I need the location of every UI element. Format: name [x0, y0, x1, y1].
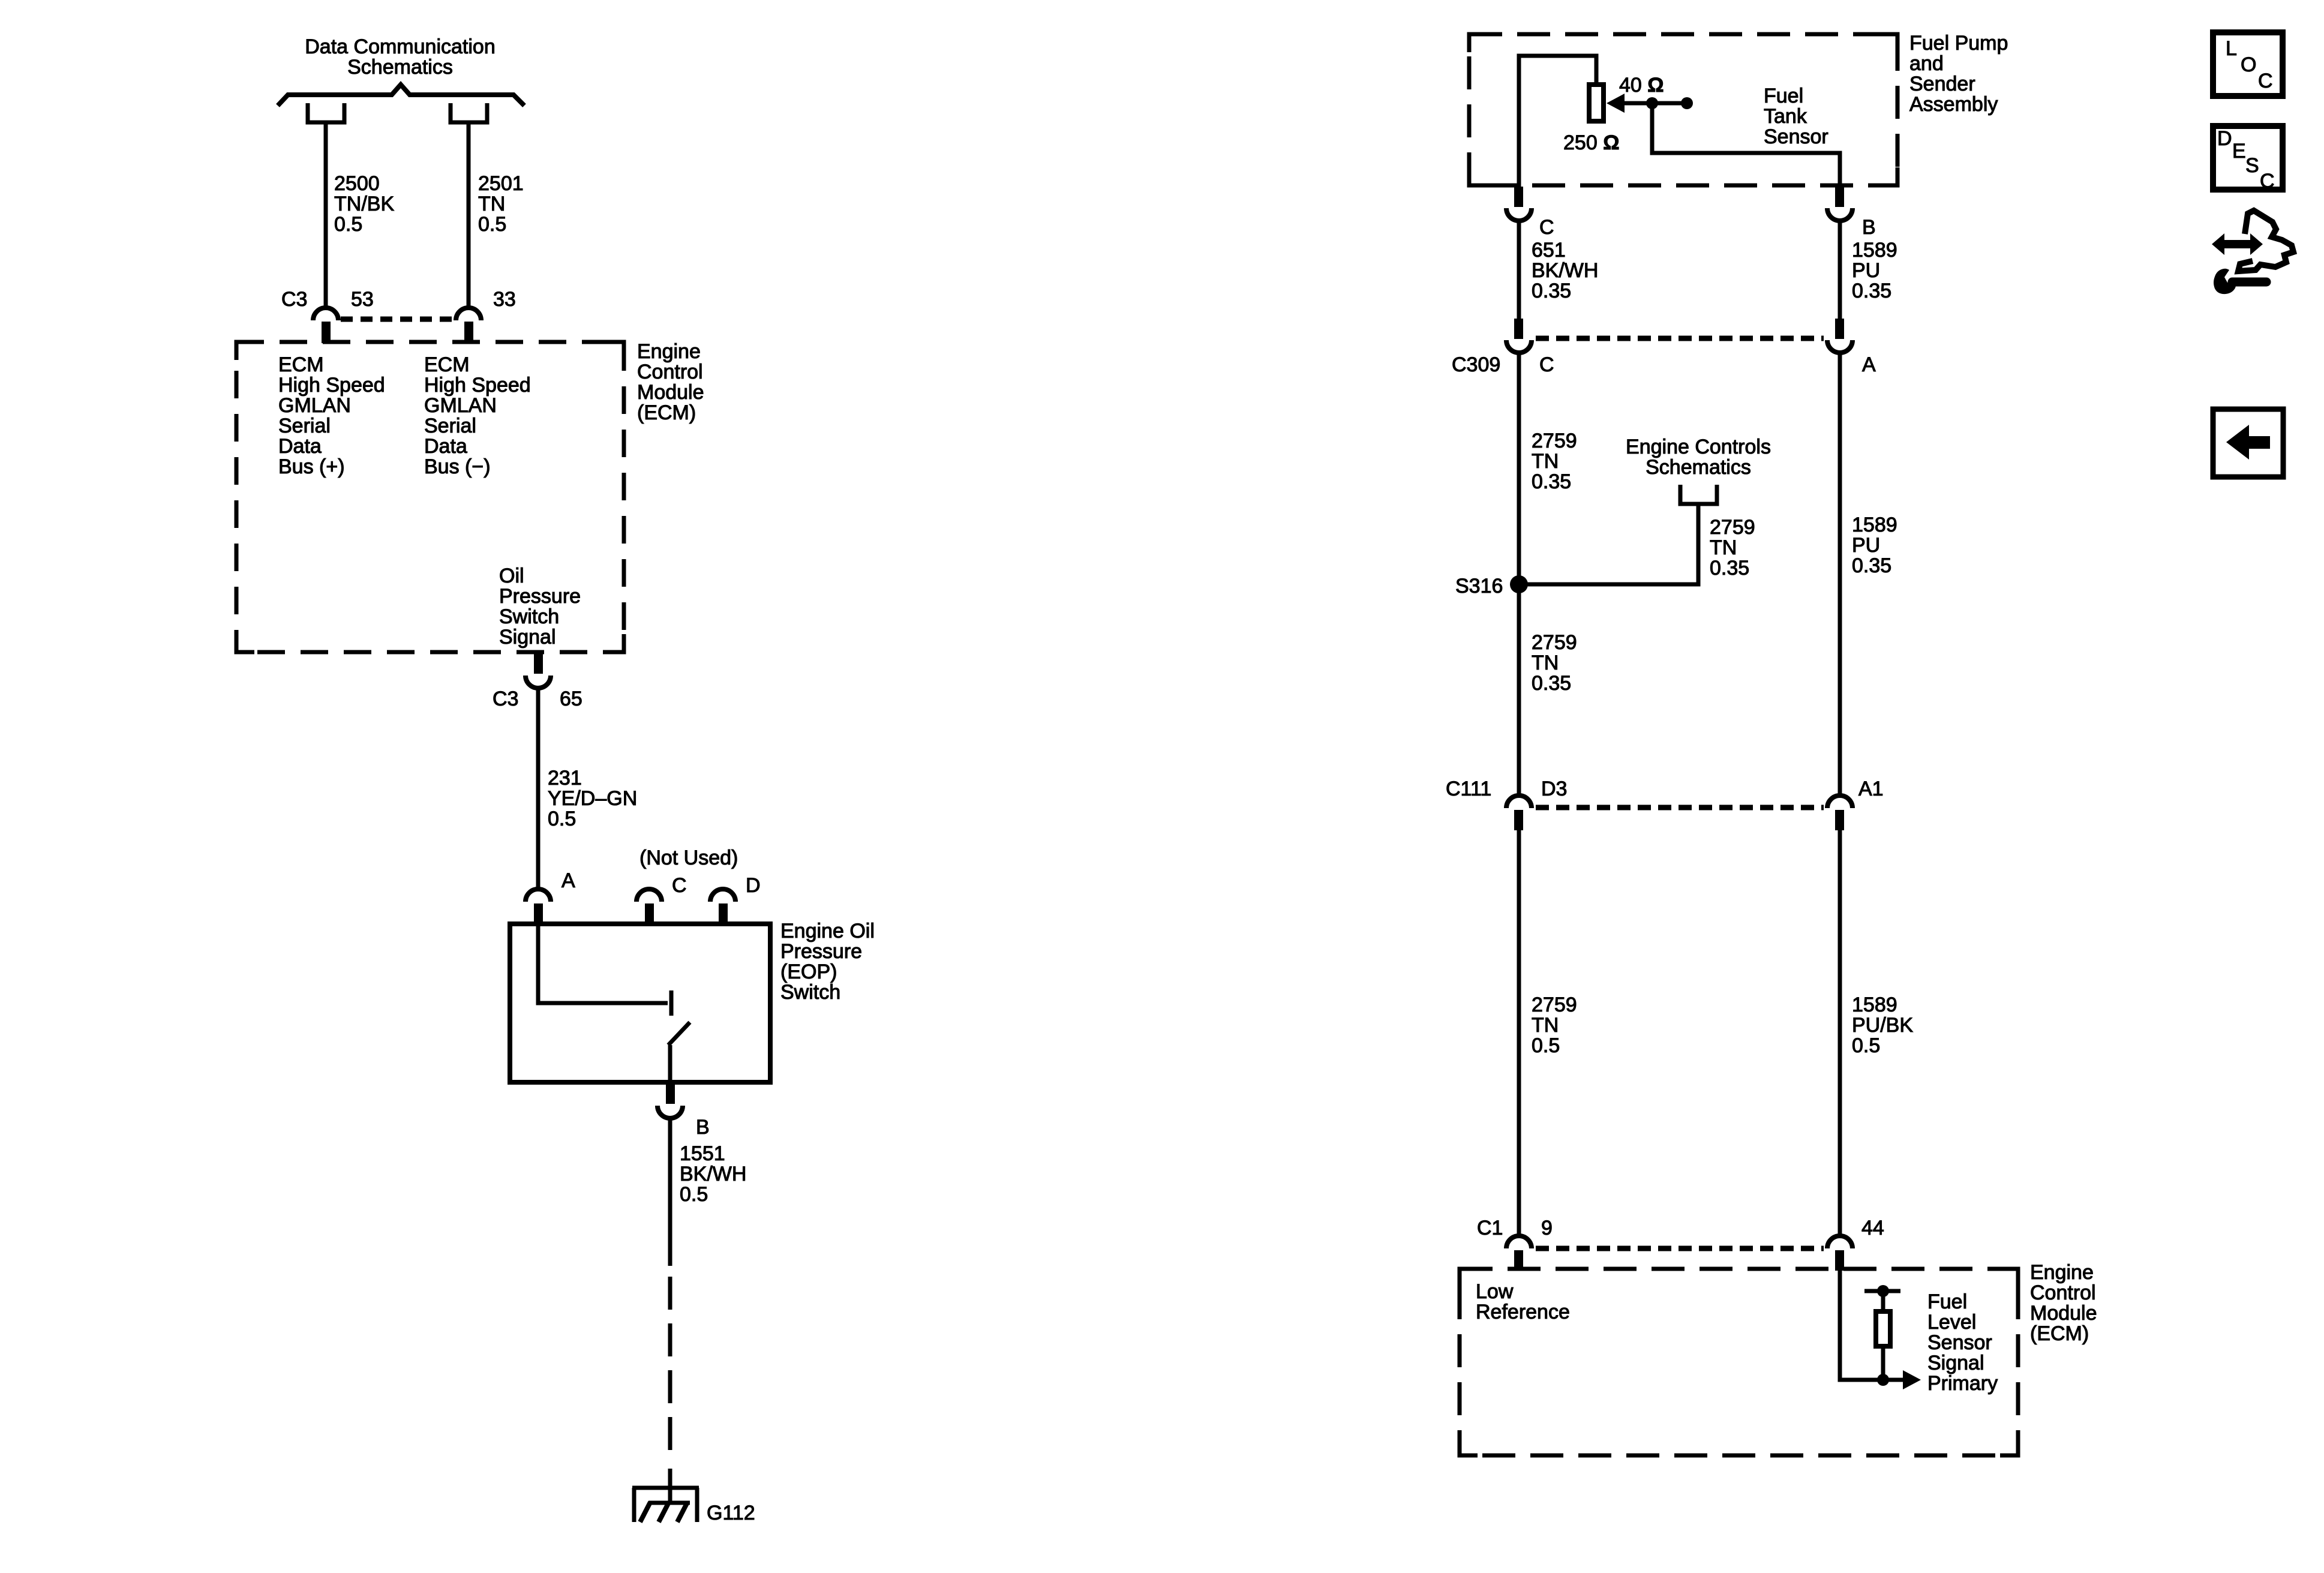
- value label: circuit 651 BK/WH 0.35: [1532, 239, 1598, 302]
- svg-text:Fuel Pump: Fuel Pump: [1909, 32, 2008, 55]
- Fuel Pump and Sender Assembly component box (dashed): [1469, 34, 1897, 185]
- connector pin D of EOP switch (arc + pin, not used): [710, 889, 735, 925]
- svg-text:Data: Data: [278, 435, 322, 458]
- svg-text:Assembly: Assembly: [1909, 93, 1998, 116]
- value label: circuit 1551 BK/WH 0.5: [680, 1142, 746, 1206]
- wire 1589 PU (upper): [1838, 221, 1842, 319]
- svg-text:Signal: Signal: [1927, 1352, 1984, 1374]
- svg-text:Fuel: Fuel: [1927, 1290, 1967, 1313]
- connector C3 pin 33 (arc + pin into ECM): [456, 308, 481, 343]
- wire 1551 BK/WH (dashed off-page run): [668, 1277, 672, 1455]
- svg-text:C3: C3: [493, 688, 518, 710]
- svg-text:651: 651: [1532, 239, 1566, 262]
- wire 2759 TN from S316 to C111: [1517, 584, 1521, 795]
- svg-text:TN/BK: TN/BK: [334, 193, 394, 215]
- svg-text:D: D: [746, 874, 761, 897]
- svg-text:Schematics: Schematics: [1646, 456, 1751, 479]
- svg-text:2759: 2759: [1710, 516, 1755, 539]
- wire inside EOP switch from pin A to fixed contact: [538, 925, 668, 1003]
- svg-text:YE/D–GN: YE/D–GN: [548, 787, 637, 810]
- svg-text:S316: S316: [1455, 575, 1503, 598]
- svg-text:0.5: 0.5: [334, 213, 362, 236]
- svg-text:0.5: 0.5: [1532, 1034, 1560, 1057]
- value label: circuit 2501 TN 0.5: [478, 172, 524, 236]
- svg-text:2759: 2759: [1532, 993, 1577, 1016]
- connector pin B of fuel pump assembly (pin + cup): [1827, 187, 1852, 221]
- wire 1551 BK/WH (solid upper part): [668, 1118, 672, 1266]
- svg-text:C111: C111: [1446, 778, 1491, 800]
- svg-text:Data: Data: [424, 435, 467, 458]
- fuel level sense resistor element: [1876, 1311, 1890, 1346]
- svg-text:C1: C1: [1477, 1217, 1503, 1239]
- svg-text:0.5: 0.5: [680, 1183, 708, 1206]
- Engine Control Module component box (dashed, bottom): [1460, 1269, 2018, 1455]
- svg-text:C3: C3: [281, 288, 307, 311]
- svg-text:9: 9: [1541, 1217, 1553, 1239]
- svg-text:0.35: 0.35: [1710, 557, 1749, 580]
- splice S316: [1510, 575, 1528, 593]
- wire 1589 PU/BK 0.5 (C111 to C1): [1838, 830, 1842, 1236]
- svg-text:Bus (−): Bus (−): [424, 455, 491, 478]
- connector C309 pin C (pin + cup): [1506, 319, 1532, 353]
- svg-text:2500: 2500: [334, 172, 380, 195]
- junction dot on wiper: [1646, 97, 1658, 109]
- svg-text:Engine: Engine: [637, 340, 701, 363]
- svg-text:C: C: [1539, 216, 1554, 239]
- value label: circuit 2500 TN/BK 0.5: [334, 172, 394, 236]
- label: Engine Control Module (ECM): [637, 340, 704, 424]
- svg-text:2759: 2759: [1532, 631, 1577, 654]
- svg-text:0.35: 0.35: [1852, 280, 1891, 302]
- svg-text:0.35: 0.35: [1532, 470, 1571, 493]
- Engine Oil Pressure (EOP) Switch component box: [510, 924, 770, 1082]
- svg-text:PU: PU: [1852, 259, 1880, 282]
- svg-text:Data Communication: Data Communication: [305, 35, 495, 58]
- svg-text:B: B: [1862, 216, 1876, 239]
- icon: diagnostic connector with double arrow and wrench: [2212, 211, 2293, 294]
- connector stub: ECM GMLAN Bus + terminal: [308, 103, 344, 122]
- svg-text:GMLAN: GMLAN: [424, 394, 497, 417]
- svg-text:Engine Controls: Engine Controls: [1626, 436, 1771, 458]
- svg-text:Switch: Switch: [780, 981, 840, 1004]
- label: Engine Oil Pressure (EOP) Switch: [780, 920, 875, 1004]
- wire 2759 TN branch from tap to S316: [1519, 504, 1698, 584]
- svg-text:250 Ω: 250 Ω: [1563, 131, 1619, 154]
- svg-text:TN: TN: [1532, 652, 1559, 674]
- svg-text:2759: 2759: [1532, 430, 1577, 452]
- connector C1 pin 44 (arc + pin into ECM): [1827, 1236, 1852, 1271]
- connector C1 pin 9 (arc + pin into ECM): [1506, 1236, 1532, 1271]
- svg-text:Low: Low: [1476, 1280, 1514, 1303]
- connector C309 pin A (pin + cup): [1827, 319, 1852, 353]
- svg-text:TN: TN: [478, 193, 505, 215]
- svg-text:C: C: [1539, 353, 1554, 376]
- node: Data Communication Schematics reference: [305, 35, 495, 79]
- svg-text:Engine Oil: Engine Oil: [780, 920, 875, 942]
- connector C111 pin D3 (arc + pin): [1506, 795, 1532, 830]
- svg-text:(ECM): (ECM): [2030, 1322, 2089, 1345]
- svg-text:TN: TN: [1710, 536, 1737, 559]
- icon: back arrow box: [2213, 409, 2283, 477]
- svg-text:Control: Control: [637, 361, 703, 383]
- connector pin A of EOP switch (arc + pin): [526, 889, 551, 925]
- svg-text:O: O: [2241, 53, 2256, 76]
- svg-text:Serial: Serial: [424, 415, 476, 437]
- connector stub: Engine Controls Schematics tap: [1680, 485, 1717, 504]
- icon: LOC box: [2213, 32, 2283, 96]
- terminal dot at wiper end: [1681, 97, 1693, 109]
- wire 1589 PU (to C111): [1838, 353, 1842, 795]
- wire from switch blade to pin B: [668, 1045, 672, 1082]
- svg-text:0.5: 0.5: [1852, 1034, 1880, 1057]
- svg-text:Schematics: Schematics: [347, 56, 453, 79]
- wire 2500 TN/BK: [324, 122, 328, 308]
- svg-text:(Not Used): (Not Used): [639, 846, 738, 869]
- pull-up bar above fuel level resistor: [1864, 1289, 1900, 1293]
- svg-text:ECM: ECM: [278, 353, 324, 376]
- svg-text:0.35: 0.35: [1852, 554, 1891, 577]
- value label: circuit 2759 TN 0.5: [1532, 993, 1577, 1057]
- wire 651 BK/WH: [1517, 221, 1521, 319]
- switch blade: [668, 1022, 690, 1045]
- wire from pin C up to fuel tank sensor resistor: [1519, 56, 1596, 187]
- svg-text:D: D: [2217, 127, 2232, 150]
- svg-text:and: and: [1909, 52, 1944, 75]
- svg-text:2501: 2501: [478, 172, 524, 195]
- svg-text:1589: 1589: [1852, 514, 1897, 536]
- value label: circuit 231 YE/D-GN 0.5: [548, 767, 637, 830]
- label: Fuel Level Sensor Signal Primary: [1927, 1290, 1998, 1395]
- fuel level sense resistor leads: [1881, 1291, 1885, 1380]
- value label: circuit 2759 TN 0.35 (branch): [1710, 516, 1755, 580]
- svg-text:GMLAN: GMLAN: [278, 394, 351, 417]
- svg-text:44: 44: [1861, 1217, 1884, 1239]
- svg-text:Sensor: Sensor: [1927, 1331, 1992, 1354]
- svg-text:TN: TN: [1532, 1014, 1559, 1037]
- brace (Data Communication Schematics bus grouping): [278, 85, 524, 106]
- label: ECM High Speed GMLAN Serial Data Bus (+): [278, 353, 385, 478]
- junction dot at resistor bottom: [1877, 1374, 1889, 1386]
- ECM component box (dashed): [236, 342, 624, 652]
- value label: circuit 2759 TN 0.35 (upper): [1532, 430, 1577, 493]
- svg-text:D3: D3: [1541, 778, 1567, 800]
- svg-text:A1: A1: [1858, 778, 1884, 800]
- svg-text:Pressure: Pressure: [780, 940, 862, 963]
- svg-text:Sender: Sender: [1909, 73, 1975, 95]
- svg-text:C309: C309: [1452, 353, 1500, 376]
- arrowhead: Fuel Level Sensor Signal Primary: [1903, 1370, 1921, 1389]
- connector pin C of EOP switch (arc + pin, not used): [636, 889, 662, 925]
- value label: circuit 1589 PU 0.35 (upper): [1852, 239, 1897, 302]
- svg-text:Module: Module: [637, 381, 704, 404]
- dot on pull-up bar: [1877, 1285, 1889, 1297]
- connector stub: ECM GMLAN Bus - terminal: [451, 103, 487, 122]
- connector pin B of EOP switch (pin + cup): [657, 1082, 683, 1118]
- svg-text:Switch: Switch: [499, 605, 559, 628]
- svg-text:High Speed: High Speed: [424, 374, 531, 397]
- connector C3 pin 65 (pin out of ECM + cup): [526, 652, 551, 688]
- svg-text:Tank: Tank: [1764, 105, 1807, 128]
- svg-text:1589: 1589: [1852, 239, 1897, 262]
- svg-text:65: 65: [560, 688, 582, 710]
- svg-text:Module: Module: [2030, 1302, 2097, 1325]
- label: Fuel Pump and Sender Assembly: [1909, 32, 2008, 116]
- label: Engine Controls Schematics reference: [1626, 436, 1771, 479]
- svg-text:TN: TN: [1532, 450, 1559, 473]
- label: ECM High Speed GMLAN Serial Data Bus (-): [424, 353, 531, 478]
- svg-text:40 Ω: 40 Ω: [1619, 74, 1664, 97]
- dashed connector jumper between pins 53 and 33: [341, 317, 454, 322]
- svg-text:BK/WH: BK/WH: [1532, 259, 1598, 282]
- svg-text:High Speed: High Speed: [278, 374, 385, 397]
- svg-text:C: C: [2260, 170, 2275, 193]
- dashed harness line of connector C111: [1536, 805, 1824, 810]
- svg-text:B: B: [696, 1116, 710, 1139]
- svg-text:Reference: Reference: [1476, 1301, 1570, 1323]
- value label: circuit 1589 PU 0.35 (mid): [1852, 514, 1897, 577]
- value label: circuit 2759 TN 0.35 (lower): [1532, 631, 1577, 695]
- wire pin 44 to fuel level sense node: [1840, 1271, 1905, 1380]
- svg-text:1589: 1589: [1852, 993, 1897, 1016]
- wire 2759 TN 0.5 (C111 to C1): [1517, 830, 1521, 1236]
- svg-text:PU: PU: [1852, 534, 1880, 557]
- svg-text:Control: Control: [2030, 1281, 2096, 1304]
- connector pin C of fuel pump assembly (pin + cup): [1506, 187, 1532, 221]
- connector C111 pin A1 (arc + pin): [1827, 795, 1852, 830]
- label: Low Reference: [1476, 1280, 1570, 1323]
- svg-text:Signal: Signal: [499, 626, 556, 649]
- svg-text:0.5: 0.5: [478, 213, 506, 236]
- svg-text:(ECM): (ECM): [637, 401, 696, 424]
- wire 2501 TN: [467, 122, 471, 308]
- svg-text:A: A: [1862, 353, 1876, 376]
- icon: DESC box: [2213, 126, 2283, 193]
- svg-text:Fuel: Fuel: [1764, 85, 1803, 107]
- svg-text:231: 231: [548, 767, 582, 789]
- svg-text:G112: G112: [707, 1502, 755, 1524]
- wire 2759 TN from C309 to S316: [1517, 353, 1521, 584]
- svg-text:Serial: Serial: [278, 415, 331, 437]
- svg-text:33: 33: [493, 288, 516, 311]
- svg-text:Level: Level: [1927, 1311, 1976, 1334]
- svg-text:1551: 1551: [680, 1142, 725, 1165]
- svg-text:C: C: [2258, 70, 2273, 92]
- svg-text:0.5: 0.5: [548, 807, 576, 830]
- svg-text:S: S: [2245, 154, 2259, 177]
- svg-text:BK/WH: BK/WH: [680, 1163, 746, 1185]
- svg-text:Engine: Engine: [2030, 1261, 2094, 1284]
- svg-text:Bus (+): Bus (+): [278, 455, 345, 478]
- label: Oil Pressure Switch Signal: [499, 565, 581, 649]
- value label: circuit 1589 PU/BK 0.5: [1852, 993, 1913, 1057]
- svg-text:Oil: Oil: [499, 565, 524, 587]
- wire from wiper junction to pin B: [1652, 103, 1840, 187]
- label: Engine Control Module (ECM) bottom: [2030, 1261, 2097, 1345]
- label: Fuel Tank Sensor: [1764, 85, 1828, 148]
- wiper arrow of fuel tank sensor: [1607, 94, 1687, 113]
- switch fixed contact bar: [669, 990, 674, 1016]
- connector C3 pin 53 (arc + pin into ECM): [313, 308, 338, 343]
- svg-text:0.35: 0.35: [1532, 672, 1571, 695]
- svg-text:(EOP): (EOP): [780, 960, 837, 983]
- svg-text:ECM: ECM: [424, 353, 470, 376]
- svg-text:C: C: [672, 874, 687, 897]
- wire 231 YE/D-GN: [536, 688, 541, 889]
- svg-text:Primary: Primary: [1927, 1372, 1998, 1395]
- svg-text:Pressure: Pressure: [499, 585, 581, 608]
- dashed harness line of connector C1: [1536, 1246, 1824, 1251]
- fuel tank sensor resistor element: [1589, 85, 1604, 121]
- svg-text:Sensor: Sensor: [1764, 125, 1828, 148]
- wire 1551 BK/WH (solid lower stub): [668, 1469, 672, 1503]
- svg-text:L: L: [2226, 37, 2237, 60]
- ground G112 symbol: [632, 1488, 699, 1522]
- svg-text:0.35: 0.35: [1532, 280, 1571, 302]
- svg-text:PU/BK: PU/BK: [1852, 1014, 1913, 1037]
- dashed harness line of connector C309: [1536, 336, 1824, 341]
- svg-text:E: E: [2232, 140, 2246, 163]
- svg-text:A: A: [562, 869, 575, 892]
- svg-text:53: 53: [351, 288, 374, 311]
